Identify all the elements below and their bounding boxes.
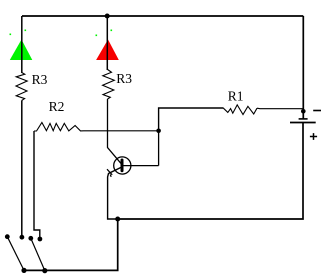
- wire red LED lead (top rail to R3): [106, 16, 108, 70]
- label plus: [310, 133, 317, 140]
- wire node up to R1 corner: [159, 108, 223, 131]
- transistor Q1 emitter arrowhead: [107, 169, 112, 177]
- resistor R1 zigzag: [223, 105, 257, 115]
- battery BT1 long (positive) plate: [290, 122, 316, 124]
- battery BT1 short (negative) plate: [299, 118, 308, 120]
- svg-text:R1: R1: [228, 89, 244, 104]
- LED D1 green: [10, 40, 33, 61]
- node collector/R1/R2 junction: [156, 129, 161, 134]
- switch SW2 blade: [31, 238, 45, 270]
- resistor R2 zigzag: [34, 123, 84, 132]
- green speck 1: [10, 34, 12, 36]
- wire green R3 bottom lead to switch SW1: [21, 101, 23, 237]
- transistor Q1 emitter wire with jog to node: [108, 167, 122, 219]
- transistor Q1 collector wire: [124, 131, 159, 166]
- switch SW1 terminal node: [20, 235, 25, 240]
- svg-text:R3: R3: [32, 72, 48, 87]
- resistor R3 (right) zigzag: [103, 70, 115, 100]
- wire right vertical from top rail to battery: [302, 16, 304, 119]
- wire green LED lead (top rail to R3): [21, 16, 23, 73]
- switch SW1 blade-end node: [5, 234, 10, 239]
- svg-text:R2: R2: [49, 99, 65, 114]
- switch SW2 pivot node: [42, 268, 47, 273]
- switch SW1 pivot node: [21, 268, 26, 273]
- resistor R3 (left) zigzag: [16, 73, 27, 101]
- switch SW1 blade: [7, 237, 24, 271]
- wire R1 right lead to battery minus node: [257, 107, 303, 110]
- svg-text:R3: R3: [116, 71, 132, 86]
- green speck 3: [96, 35, 98, 37]
- green speck 2: [25, 30, 27, 32]
- transistor Q1 base bar: [121, 160, 124, 171]
- wire top rail: [22, 15, 303, 17]
- wire bottom rail from node down to switches: [24, 219, 118, 270]
- label minus: [313, 110, 321, 112]
- wire R2 left lead down to switch SW2 (with jog): [34, 131, 40, 237]
- transistor Q1 circle: [114, 157, 131, 174]
- wire battery positive down and along bottom to emitter node: [118, 123, 303, 220]
- node emitter/bottom junction: [115, 217, 120, 222]
- node battery minus junction: [301, 109, 306, 114]
- wire R2 right lead to node: [84, 130, 159, 132]
- node top junction: [105, 14, 110, 19]
- green speck 4: [111, 30, 113, 32]
- LED D2 red: [96, 40, 119, 61]
- switch SW2 terminal node: [38, 237, 43, 242]
- switch SW2 blade-end node: [28, 236, 33, 241]
- wire red R3 bottom lead down to transistor base: [108, 99, 122, 164]
